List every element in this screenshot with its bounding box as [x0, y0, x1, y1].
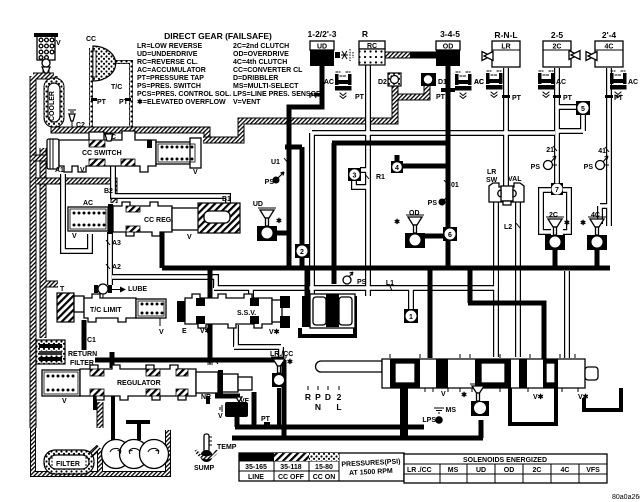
svg-text:LINE: LINE	[248, 474, 264, 481]
valve MANUAL VALVE	[316, 354, 598, 392]
valve CC SWITCH	[47, 131, 201, 172]
svg-text:2C: 2C	[553, 44, 562, 51]
wire bus to regulator M	[208, 268, 213, 360]
white cores of hollow wires	[366, 65, 370, 296]
svg-text:T/C: T/C	[111, 84, 122, 91]
switch PS L1	[343, 272, 353, 284]
wire MS drain	[479, 420, 484, 438]
wire CC hollow bus left drop	[309, 133, 315, 296]
svg-text:CC SWITCH: CC SWITCH	[82, 150, 122, 157]
wire PCS bus P	[235, 417, 424, 427]
svg-text:✱: ✱	[394, 218, 400, 226]
check LR/CC	[271, 357, 287, 387]
svg-text:N: N	[315, 402, 321, 412]
ports bottom	[425, 388, 578, 392]
svg-text:V: V	[56, 40, 61, 47]
svg-text:E: E	[182, 328, 187, 335]
svg-text:✱=ELEVATED OVERFLOW: ✱=ELEVATED OVERFLOW	[137, 98, 226, 106]
svg-text:C1: C1	[87, 337, 96, 344]
svg-text:PT: PT	[563, 95, 573, 102]
svg-text:4C: 4C	[561, 467, 570, 474]
switch PS OD line	[439, 194, 451, 206]
PT taps top row	[314, 93, 322, 97]
svg-text:✱: ✱	[287, 358, 293, 366]
svg-text:3: 3	[353, 173, 357, 180]
wire 2C feed	[554, 68, 560, 184]
svg-text:PS: PS	[584, 164, 594, 171]
svg-text:2-5: 2-5	[551, 30, 564, 40]
svg-text:T/C LIMIT: T/C LIMIT	[90, 307, 122, 314]
svg-text:V: V	[187, 234, 192, 241]
svg-text:A3: A3	[112, 240, 121, 247]
switch PS 4C	[596, 156, 610, 170]
svg-text:VFS: VFS	[586, 467, 600, 474]
wire second left hatched channel	[43, 148, 58, 338]
svg-text:CC OFF: CC OFF	[278, 474, 305, 481]
svg-text:V✱: V✱	[578, 393, 589, 401]
svg-text:LR=LOW REVERSE: LR=LOW REVERSE	[137, 43, 202, 50]
wire C1 line	[82, 320, 87, 350]
svg-text:✱: ✱	[564, 219, 570, 227]
svg-text:PS: PS	[428, 200, 438, 207]
wire bus2 drop to bottom bus	[282, 360, 287, 438]
svg-text:1: 1	[409, 314, 413, 321]
wire manual valve drain	[400, 388, 408, 436]
tap PT bottom	[264, 422, 270, 427]
wire LR feed	[503, 68, 509, 186]
svg-text:U1: U1	[271, 159, 280, 166]
check UD	[257, 208, 277, 241]
svg-text:V=VENT: V=VENT	[233, 99, 261, 106]
wire ball2 stub	[285, 147, 302, 268]
svg-text:AC: AC	[628, 79, 638, 86]
svg-text:V: V	[72, 233, 77, 240]
node ball 1	[404, 309, 418, 323]
svg-text:6: 6	[448, 232, 452, 239]
node ball 4	[391, 161, 403, 173]
wire A1 drain	[63, 174, 90, 251]
svg-text:PT: PT	[614, 95, 624, 102]
svg-text:CC=CONVERTER CL: CC=CONVERTER CL	[233, 67, 303, 74]
svg-text:OD: OD	[504, 467, 515, 474]
clutch UD	[310, 41, 334, 66]
svg-text:DIRECT GEAR (FAILSAFE): DIRECT GEAR (FAILSAFE)	[164, 31, 272, 41]
wire manual valve right vent	[564, 271, 570, 358]
wire CC line	[332, 143, 448, 284]
wire V* frame	[510, 388, 556, 424]
clutch 2C	[543, 41, 580, 67]
svg-text:1-2/2'-3: 1-2/2'-3	[308, 29, 337, 39]
svg-text:AC=ACCUMULATOR: AC=ACCUMULATOR	[137, 67, 206, 74]
svg-text:V: V	[218, 413, 223, 420]
sump frame	[33, 428, 168, 474]
svg-text:AC: AC	[324, 79, 334, 86]
valve CC REG	[68, 202, 240, 236]
svg-text:LR./CC: LR./CC	[270, 351, 293, 358]
vent radiator	[34, 33, 58, 73]
svg-text:35-118: 35-118	[280, 464, 302, 471]
svg-text:41: 41	[598, 148, 606, 155]
solenoid body	[310, 294, 355, 328]
C2 check valve	[68, 110, 76, 127]
accumulator AC (4C)	[610, 71, 627, 98]
C check on top	[105, 134, 113, 141]
svg-text:PT: PT	[119, 99, 129, 106]
PT taps on T/C	[91, 98, 97, 101]
wire CC reg drop	[160, 231, 165, 268]
svg-text:TEMP: TEMP	[217, 444, 237, 451]
svg-text:V✱: V✱	[269, 328, 280, 336]
svg-text:R-N-L: R-N-L	[494, 30, 517, 40]
svg-text:B2: B2	[104, 188, 113, 195]
thermometer TEMP	[196, 434, 217, 462]
svg-text:V: V	[159, 329, 164, 336]
svg-text:V✱: V✱	[200, 327, 211, 335]
svg-text:SOLENOIDS ENERGIZED: SOLENOIDS ENERGIZED	[463, 457, 547, 464]
valve T/C LIMIT	[57, 293, 166, 326]
svg-text:MS: MS	[446, 407, 457, 414]
svg-text:PCS=PRES. CONTROL SOL.: PCS=PRES. CONTROL SOL.	[137, 91, 231, 98]
wire ball 1 drop	[408, 288, 414, 310]
wire V* right vent	[584, 388, 621, 410]
wire converter feed channel	[203, 85, 395, 140]
svg-text:UD: UD	[317, 44, 327, 51]
elevated overflow sprayer	[335, 49, 353, 61]
svg-text:UD: UD	[253, 201, 263, 208]
wire main line bus	[162, 266, 610, 271]
svg-text:M: M	[207, 360, 213, 367]
svg-text:FILTER: FILTER	[70, 360, 94, 367]
solenoid PCS	[220, 397, 248, 417]
svg-text:4C: 4C	[605, 44, 614, 51]
wire 4C cup drop	[595, 248, 600, 268]
svg-text:NR: NR	[201, 394, 211, 401]
wire ball4 to manual valve feed	[397, 155, 448, 166]
wire bus elbow to manual valve right feed	[468, 268, 544, 359]
check LUBE	[94, 284, 126, 298]
svg-text:T: T	[60, 286, 65, 293]
wire NR outlet	[215, 394, 240, 399]
svg-text:35-165: 35-165	[245, 464, 267, 471]
svg-text:4C: 4C	[591, 212, 600, 219]
svg-text:AC: AC	[83, 200, 93, 207]
svg-text:R: R	[305, 392, 311, 402]
torque converter T/C	[91, 46, 131, 127]
svg-text:S.S.V.: S.S.V.	[237, 310, 256, 317]
wire L2 drop	[515, 200, 521, 357]
accumulator AC (2C)	[538, 71, 555, 98]
svg-text:D: D	[325, 392, 331, 402]
svg-text:OD: OD	[409, 210, 420, 217]
wire 4C feed	[600, 68, 609, 226]
svg-text:A2: A2	[112, 264, 121, 271]
check 2C	[545, 217, 565, 250]
ports top	[390, 354, 575, 358]
svg-text:✱: ✱	[580, 219, 586, 227]
svg-text:LR: LR	[501, 44, 510, 51]
switch PS 2C	[542, 156, 557, 171]
svg-text:V: V	[80, 167, 85, 174]
svg-text:CC ON: CC ON	[313, 474, 336, 481]
wire ball5 link	[557, 107, 583, 131]
wire RC to OD black segment	[410, 52, 436, 59]
wire ball 3 loop	[354, 170, 368, 187]
svg-text:P: P	[315, 392, 321, 402]
svg-text:PCS: PCS	[229, 406, 244, 415]
node ball 6	[443, 227, 457, 241]
check OD	[405, 215, 425, 248]
svg-text:✱: ✱	[461, 391, 467, 399]
svg-text:5: 5	[581, 106, 585, 113]
wire L1 line	[112, 270, 496, 298]
clutch RC	[359, 41, 385, 65]
svg-text:R1: R1	[376, 174, 385, 181]
wire 2C cup drop	[553, 248, 558, 268]
svg-text:7: 7	[555, 187, 559, 194]
svg-text:MS=MULTI-SELECT: MS=MULTI-SELECT	[233, 83, 299, 90]
check MS	[470, 384, 489, 416]
wire hatched to CC reg	[36, 181, 114, 203]
svg-text:UD: UD	[476, 467, 486, 474]
wire LR switch valve left drop	[493, 200, 499, 357]
svg-text:V: V	[193, 169, 198, 176]
accumulator AC (OD)	[455, 72, 472, 99]
svg-text:VF: VF	[240, 398, 250, 405]
switch PS U1	[273, 172, 285, 184]
wire OD clutch main 01	[446, 64, 451, 268]
svg-text:C2: C2	[76, 122, 85, 129]
clutch OD	[436, 41, 460, 66]
svg-text:L: L	[336, 402, 341, 412]
svg-text:PT=PRESSURE TAP: PT=PRESSURE TAP	[137, 75, 204, 82]
svg-text:2: 2	[300, 249, 304, 256]
filter	[44, 450, 94, 474]
svg-text:RETURN: RETURN	[68, 351, 97, 358]
wire bottom bus Q	[232, 436, 483, 441]
svg-text:AC: AC	[556, 79, 566, 86]
svg-text:V: V	[441, 391, 446, 398]
wire RC to OD dribbler channel	[385, 52, 412, 59]
wire bus to MS branch	[479, 370, 484, 388]
svg-text:2C: 2C	[549, 212, 558, 219]
wire dribbler D1 link	[397, 86, 427, 97]
wire regulator to PCS vertical	[252, 392, 257, 427]
svg-text:LPS: LPS	[422, 417, 436, 424]
wire solenoid return	[300, 296, 355, 336]
svg-text:PT: PT	[355, 94, 365, 101]
svg-text:PT: PT	[512, 95, 522, 102]
node line ticks	[106, 146, 609, 291]
svg-text:VAL: VAL	[508, 176, 522, 183]
valve REGULATOR	[42, 365, 252, 400]
wire LR/CC cup drain	[277, 388, 281, 427]
wire RC left branch to SSV	[365, 65, 371, 296]
wire OD check feed	[421, 234, 443, 239]
node ball 7	[551, 183, 563, 195]
svg-text:PT: PT	[97, 99, 107, 106]
svg-text:4C=4th CLUTCH: 4C=4th CLUTCH	[233, 59, 287, 66]
svg-text:PS: PS	[357, 279, 367, 286]
wire pump suction channel	[97, 402, 104, 428]
svg-text:✱: ✱	[276, 217, 282, 225]
svg-text:OD: OD	[443, 44, 454, 51]
svg-text:AC: AC	[474, 79, 484, 86]
svg-text:PS: PS	[531, 164, 541, 171]
svg-text:V✱: V✱	[533, 393, 544, 401]
accumulator AC (LR)	[486, 71, 503, 98]
svg-text:UD=UNDERDRIVE: UD=UNDERDRIVE	[137, 51, 198, 58]
svg-text:3-4-5: 3-4-5	[440, 29, 460, 39]
svg-text:21: 21	[546, 147, 554, 154]
accumulator AC (UD)	[335, 72, 352, 99]
svg-text:PS: PS	[265, 179, 275, 186]
svg-text:SUMP: SUMP	[194, 465, 215, 472]
svg-text:L2: L2	[504, 224, 512, 231]
svg-text:REGULATOR: REGULATOR	[117, 380, 161, 387]
svg-text:MS: MS	[448, 467, 459, 474]
wire cooler to T/C bottom channel	[54, 124, 207, 140]
svg-text:01: 01	[451, 182, 459, 189]
wire regulator drops	[95, 396, 208, 410]
svg-text:C: C	[111, 134, 116, 141]
dribbler D2	[388, 73, 401, 86]
node ball 5	[576, 101, 590, 115]
cooler	[44, 78, 64, 127]
svg-text:CC: CC	[86, 36, 96, 43]
svg-text:PT: PT	[261, 416, 271, 423]
wire UD clutch main	[289, 64, 322, 268]
wire bus to manual valve	[428, 268, 433, 358]
clutch LR	[482, 41, 520, 67]
wire pump top pipes	[113, 396, 150, 440]
svg-text:OD=OVERDRIVE: OD=OVERDRIVE	[233, 51, 289, 58]
svg-text:LR: LR	[487, 169, 496, 176]
svg-text:D1: D1	[438, 79, 447, 86]
wire bus to solenoid block	[305, 268, 310, 296]
svg-text:D=DRIBBLER: D=DRIBBLER	[233, 75, 278, 82]
svg-text:2: 2	[337, 392, 342, 402]
svg-text:LR ./CC: LR ./CC	[407, 467, 432, 474]
wire hatched stub to CC switch cap	[33, 155, 50, 162]
lands	[390, 359, 420, 388]
svg-text:A1: A1	[55, 167, 64, 174]
pump gears	[102, 440, 169, 469]
svg-text:LUBE: LUBE	[128, 286, 147, 293]
svg-text:RC: RC	[367, 43, 377, 50]
wire SSV drain to LR/CC check	[234, 325, 281, 360]
svg-text:PT: PT	[436, 94, 446, 101]
svg-text:CC REG.: CC REG.	[144, 217, 173, 224]
svg-text:L1: L1	[386, 280, 394, 287]
valve LR SW VAL	[489, 183, 524, 205]
wire UD check feed	[276, 231, 289, 236]
clutch 4C	[586, 41, 623, 67]
dribbler D1	[421, 73, 436, 86]
wire B2 B1 line	[113, 166, 228, 204]
check 4C	[587, 217, 607, 250]
spool piece	[272, 300, 282, 322]
svg-text:4: 4	[395, 165, 399, 172]
svg-text:80a0a26d: 80a0a26d	[612, 494, 640, 501]
wire left main hatched channel	[33, 70, 54, 428]
wire loop 7	[541, 190, 569, 232]
svg-text:B1: B1	[222, 196, 231, 203]
svg-text:PT: PT	[309, 93, 319, 100]
wire A3 A2 line	[107, 232, 113, 285]
svg-text:SW: SW	[486, 177, 498, 184]
svg-text:2C=2nd CLUTCH: 2C=2nd CLUTCH	[233, 43, 289, 50]
wire converter clutch hollow bus	[312, 130, 555, 136]
svg-text:V: V	[62, 398, 67, 405]
svg-text:2'-4: 2'-4	[602, 30, 617, 40]
svg-text:D2: D2	[378, 79, 387, 86]
return filter	[36, 340, 65, 364]
svg-text:LPS=LINE PRES. SENSOR: LPS=LINE PRES. SENSOR	[233, 91, 321, 98]
wire regulator feed bus2	[95, 358, 284, 363]
svg-text:RC=REVERSE CL.: RC=REVERSE CL.	[137, 59, 198, 66]
svg-text:PS=PRES. SWITCH: PS=PRES. SWITCH	[137, 83, 201, 90]
valve S.S.V.	[177, 294, 355, 328]
wire regulator inlet riser	[110, 352, 115, 368]
node ball 2	[295, 244, 309, 258]
svg-text:2C: 2C	[533, 467, 542, 474]
svg-text:FILTER: FILTER	[56, 461, 80, 468]
svg-text:15-80: 15-80	[315, 464, 333, 471]
node ball 3	[348, 168, 361, 181]
svg-text:R: R	[362, 29, 368, 39]
svg-text:COOLER: COOLER	[49, 91, 56, 121]
sensor LPS	[434, 408, 444, 424]
